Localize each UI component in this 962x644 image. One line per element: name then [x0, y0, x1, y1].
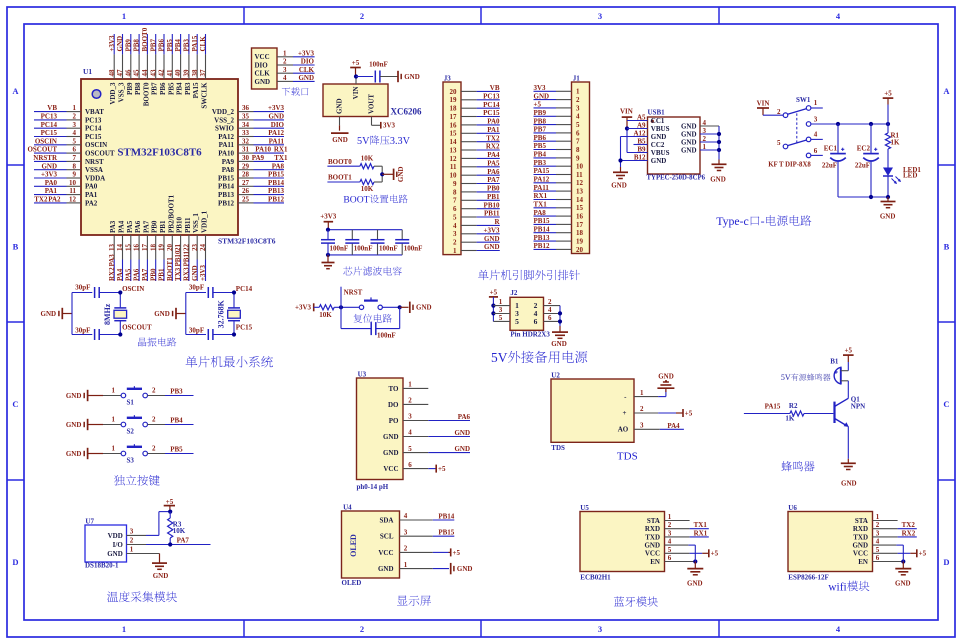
J1 pin 3 wire+net +5: [534, 101, 581, 113]
svg-text:8MHz: 8MHz: [103, 303, 112, 325]
svg-text:22uF: 22uF: [822, 162, 837, 170]
svg-text:RX1: RX1: [274, 146, 288, 154]
svg-text:TDS: TDS: [617, 451, 638, 463]
transistor Q1 NPN: [835, 396, 866, 427]
svg-text:VCC: VCC: [255, 53, 270, 61]
svg-text:RX3: RX3: [183, 267, 191, 281]
svg-text:46: 46: [124, 69, 132, 77]
resistor R2 1K: [785, 402, 804, 422]
svg-text:C: C: [943, 399, 949, 409]
svg-text:-: -: [761, 214, 765, 228]
svg-text:9: 9: [453, 180, 457, 188]
U4 pin 2 VCC wire: [378, 545, 460, 557]
svg-text:24: 24: [199, 244, 207, 252]
svg-text:EC2: EC2: [857, 145, 871, 153]
J3 pin 11 wire+net PA5: [450, 160, 500, 172]
svg-text:B5: B5: [637, 137, 646, 145]
label TYPEC-250D-8CP6: [647, 174, 706, 181]
svg-text:SWIO: SWIO: [215, 125, 235, 133]
svg-text:2: 2: [152, 445, 156, 453]
caption independent keys: [114, 475, 160, 486]
U1 left pin 6 OSCOUT wire+label: [27, 146, 114, 158]
svg-text:10: 10: [69, 179, 77, 187]
svg-text:100nF: 100nF: [354, 245, 373, 253]
J3 pin 8 wire+net PB0: [453, 185, 500, 197]
wire BOOT0 to node: [374, 166, 382, 174]
U1 bottom pin 17 PA7 wire+label: [141, 220, 150, 281]
svg-text:U6: U6: [788, 504, 797, 512]
switch SW1 KF T DIP-8X8: [777, 96, 818, 158]
svg-text:100nF: 100nF: [404, 245, 423, 253]
svg-text:GND: GND: [651, 133, 667, 141]
svg-text:PA4: PA4: [487, 151, 500, 159]
U6 pin 5 VCC wire: [853, 546, 927, 558]
temp sensor U7 body: [85, 517, 127, 569]
svg-text:LED: LED: [903, 172, 917, 180]
connector J1 20-pin body: [572, 75, 590, 254]
svg-text:1: 1: [130, 546, 134, 554]
svg-text:7: 7: [576, 138, 580, 146]
label Pin HDR2X3: [510, 331, 550, 339]
svg-text:PB13: PB13: [534, 234, 550, 242]
U1 right pin 36 VDD_2 wire+label: [212, 104, 285, 116]
caption MCU minimum system: [186, 356, 273, 368]
svg-text:1: 1: [404, 561, 408, 569]
caption Type-c power circuit: [716, 214, 811, 228]
U1 top pin 37 SWCLK wire+label: [199, 34, 208, 109]
pushbutton S2 to PB4: [66, 415, 194, 435]
crystal X2 32.768K with 30pF caps: [154, 284, 252, 340]
svg-text:PB6: PB6: [534, 134, 547, 142]
svg-text:3: 3: [283, 66, 287, 74]
svg-text:39: 39: [183, 69, 191, 77]
svg-text:18: 18: [576, 229, 584, 237]
svg-text:A5: A5: [637, 113, 646, 121]
svg-text:25: 25: [242, 196, 250, 204]
svg-text:GND: GND: [484, 235, 500, 243]
J2 row 3-4 wires: [493, 306, 560, 318]
power +3V3 at reset: [295, 303, 319, 311]
svg-text:PB0: PB0: [487, 185, 500, 193]
svg-text:16: 16: [450, 121, 458, 129]
svg-text:21: 21: [174, 244, 182, 252]
svg-text:1: 1: [112, 445, 116, 453]
svg-text:6: 6: [534, 317, 538, 326]
svg-text:PB13: PB13: [268, 187, 284, 195]
svg-text:TX2: TX2: [902, 521, 916, 529]
buzzer B1 5V active: [781, 358, 848, 384]
U6 pin 3 TXD wire: [853, 529, 917, 541]
svg-text:OLED: OLED: [349, 534, 358, 557]
svg-text:VB: VB: [490, 84, 500, 92]
USB1 left pin A12 GND: [621, 129, 667, 141]
svg-text:+5: +5: [711, 550, 719, 558]
svg-text:RXD: RXD: [853, 525, 868, 533]
U1 bottom pin 15 PA5 wire+label: [124, 220, 133, 281]
svg-text:15: 15: [450, 130, 458, 138]
svg-text:30: 30: [242, 154, 250, 162]
svg-text:PA15: PA15: [192, 82, 200, 98]
svg-text:OSCOUT: OSCOUT: [85, 150, 115, 158]
svg-text:5: 5: [499, 314, 503, 322]
svg-text:PB12: PB12: [218, 199, 234, 207]
svg-text:PA11: PA11: [269, 137, 285, 145]
svg-text:4: 4: [283, 74, 287, 82]
svg-text:1: 1: [112, 387, 116, 395]
caption pH title none: [0, 0, 1, 1]
U1 left pin 3 PC14 wire+label: [34, 121, 102, 133]
svg-text:10: 10: [576, 163, 584, 171]
svg-text:GND: GND: [457, 565, 473, 573]
caption crystal circuit: [138, 337, 176, 346]
svg-text:TXD: TXD: [853, 533, 868, 541]
svg-text:17: 17: [576, 221, 584, 229]
svg-text:ph0-14 pH: ph0-14 pH: [357, 483, 389, 491]
svg-text:2: 2: [668, 521, 672, 529]
svg-text:+5: +5: [884, 90, 892, 98]
svg-text:1: 1: [576, 88, 580, 96]
svg-text:PC15: PC15: [85, 133, 102, 141]
svg-text:10K: 10K: [173, 527, 186, 535]
svg-text:5: 5: [408, 445, 412, 453]
svg-text:GND: GND: [681, 122, 697, 130]
connector download port 4-pin: [252, 48, 315, 89]
svg-text:100nF: 100nF: [377, 332, 396, 340]
svg-text:6: 6: [576, 129, 580, 137]
svg-text:S3: S3: [127, 456, 135, 464]
svg-text:28: 28: [242, 171, 250, 179]
node BOOT junction: [380, 172, 393, 176]
svg-text:31: 31: [242, 146, 250, 154]
svg-text:5: 5: [668, 546, 672, 554]
svg-text:33: 33: [242, 129, 250, 137]
svg-text:32.768K: 32.768K: [217, 299, 226, 328]
svg-text:Type-c: Type-c: [716, 214, 749, 228]
svg-text:3: 3: [73, 121, 77, 129]
svg-text:B9: B9: [637, 145, 646, 153]
svg-text:22uF: 22uF: [855, 162, 870, 170]
U6 pin 1 STA wire: [855, 513, 898, 525]
power +5 at R1: [883, 90, 894, 134]
svg-text:1: 1: [122, 624, 126, 634]
svg-text:GND: GND: [880, 212, 896, 220]
label KF T DIP-8X8: [768, 161, 811, 168]
resistor R3 10K: [168, 512, 186, 545]
svg-text:PB11: PB11: [184, 217, 192, 233]
svg-text:2: 2: [283, 58, 287, 66]
J3 pin 17 wire+net PC15: [450, 109, 500, 121]
svg-text:RX1: RX1: [694, 529, 708, 537]
U1 left pin 2 PC13 wire+label: [34, 113, 102, 125]
U1 right pin 26 PB13 wire+label: [218, 187, 284, 199]
svg-text:BOOT1: BOOT1: [328, 174, 352, 182]
svg-text:PB8: PB8: [133, 39, 141, 52]
svg-text:+3V3: +3V3: [108, 35, 116, 52]
svg-text:S1: S1: [127, 398, 135, 406]
svg-text:J2: J2: [510, 289, 518, 297]
svg-text:GND: GND: [611, 182, 627, 190]
svg-text:8: 8: [576, 146, 580, 154]
svg-text:1: 1: [668, 513, 672, 521]
svg-text:BOOT1: BOOT1: [166, 257, 174, 281]
svg-text:2: 2: [576, 96, 580, 104]
J1 pin 13 wire+net PA11: [534, 184, 584, 196]
svg-text:OSCOUT: OSCOUT: [122, 324, 152, 332]
U4 pin 4 SDA wire: [379, 512, 454, 524]
svg-text:5: 5: [576, 121, 580, 129]
svg-text:I/O: I/O: [113, 541, 124, 549]
svg-text:1: 1: [640, 389, 644, 397]
svg-text:12: 12: [450, 155, 458, 163]
wire R2 to base: [804, 413, 833, 415]
svg-text:11: 11: [450, 163, 457, 171]
svg-text:30pF: 30pF: [75, 284, 90, 292]
svg-text:2: 2: [777, 108, 781, 116]
ground bars BOOT: [394, 167, 406, 183]
U5 pin 5 VCC wire: [645, 546, 719, 558]
svg-text:4: 4: [453, 222, 457, 230]
svg-text:PA6: PA6: [458, 413, 471, 421]
net label BOOT0: [327, 158, 360, 166]
svg-text:11: 11: [69, 187, 76, 195]
caption wifi模块: [828, 581, 869, 594]
svg-text:VCC: VCC: [378, 549, 393, 557]
svg-text:+5: +5: [490, 289, 498, 297]
svg-text:4: 4: [814, 131, 818, 139]
caption temperature module: [107, 591, 177, 602]
svg-text:5: 5: [876, 546, 880, 554]
svg-text:GND: GND: [255, 78, 271, 86]
svg-text:36: 36: [242, 104, 250, 112]
svg-text:PC15: PC15: [236, 324, 253, 332]
resistor R1 1K: [885, 132, 900, 149]
caption display: [397, 595, 431, 605]
svg-text:PA1: PA1: [487, 126, 500, 134]
svg-text:PB13: PB13: [218, 191, 234, 199]
svg-text:GND: GND: [66, 450, 82, 458]
U3 pin 2 DO wire: [388, 397, 428, 409]
svg-text:PC14: PC14: [41, 121, 58, 129]
J3 pin 12 wire+net PA4: [450, 151, 500, 163]
U1 left pin 8 VSSA wire+label: [34, 162, 103, 174]
svg-text:STM32F103C8T6: STM32F103C8T6: [117, 147, 202, 159]
wire to reset node: [334, 305, 359, 309]
svg-text:CLK: CLK: [299, 66, 315, 74]
svg-text:4: 4: [876, 538, 880, 546]
wire VOUT to 3V3: [372, 117, 396, 130]
U7 pin 3 VDD wire: [108, 510, 173, 540]
svg-text:SW1: SW1: [796, 96, 811, 104]
svg-text:GND: GND: [710, 176, 726, 184]
svg-text:STM32F103C8T6: STM32F103C8T6: [218, 237, 276, 246]
connector J2 body: [510, 289, 544, 330]
U1 left pin 9 VDDA wire+label: [34, 171, 105, 183]
svg-text:20: 20: [450, 88, 458, 96]
svg-text:PB12: PB12: [268, 196, 284, 204]
svg-text:4: 4: [404, 512, 408, 520]
svg-text:1K: 1K: [891, 139, 901, 147]
svg-text:CLK: CLK: [255, 70, 271, 78]
U1 bottom pin 24 VDD_1 wire+label: [199, 210, 208, 281]
svg-text:VDDA: VDDA: [85, 174, 105, 182]
wire button to gnd: [382, 305, 408, 309]
J1 pin 16 wire+net PA8: [534, 209, 584, 221]
svg-text:NPN: NPN: [851, 403, 865, 411]
svg-text:2: 2: [130, 537, 134, 545]
U5 pin 6 EN wire: [650, 553, 697, 568]
svg-text:GND: GND: [41, 162, 57, 170]
U1 top pin 40 PB4 wire+label: [174, 34, 183, 95]
svg-text:10K: 10K: [361, 154, 374, 162]
svg-text:PA2: PA2: [85, 199, 98, 207]
svg-text:PA8: PA8: [222, 166, 235, 174]
caption chip filter caps: [343, 266, 402, 275]
svg-text:SWCLK: SWCLK: [201, 82, 209, 109]
connector J3 20-pin body: [443, 75, 461, 255]
svg-text:18: 18: [450, 105, 458, 113]
svg-text:PA6: PA6: [134, 220, 142, 233]
svg-text:PB0: PB0: [149, 268, 157, 281]
ground at filter caps: [322, 255, 335, 269]
svg-text:4: 4: [668, 538, 672, 546]
svg-text:GND: GND: [895, 579, 911, 587]
U1 bottom pin 14 PA4 wire+label: [116, 220, 125, 281]
svg-text:BOOT0: BOOT0: [142, 82, 150, 106]
svg-text:GND: GND: [268, 113, 284, 121]
svg-text:Pin HDR2X3: Pin HDR2X3: [510, 331, 550, 339]
J1 pin 20 wire+net PB12: [534, 242, 584, 254]
J3 pin 6 wire+net PB10: [453, 201, 500, 213]
svg-text:2: 2: [640, 405, 644, 413]
svg-text:GND: GND: [416, 304, 432, 312]
svg-text:VB: VB: [47, 104, 57, 112]
svg-text:PC14: PC14: [85, 125, 102, 133]
svg-text:+5: +5: [845, 347, 853, 355]
svg-text:DIO: DIO: [301, 58, 315, 66]
svg-text:PB4: PB4: [170, 416, 183, 424]
svg-text:3: 3: [130, 528, 134, 536]
svg-text:GND: GND: [41, 310, 57, 318]
svg-text:PC14: PC14: [236, 285, 253, 293]
svg-text:14: 14: [116, 244, 124, 252]
svg-text:37: 37: [199, 69, 207, 77]
power +5 at regulator: [350, 59, 361, 77]
U1 bottom pin 18 PB0 wire+label: [149, 220, 158, 281]
svg-text:PB1: PB1: [487, 193, 500, 201]
svg-text:PC15: PC15: [483, 109, 500, 117]
resistor 10K reset: [319, 305, 334, 319]
U1 right pin 30 PA9 wire+label: [222, 154, 288, 166]
svg-text:VCC: VCC: [853, 550, 868, 558]
svg-text:PB10: PB10: [176, 217, 184, 233]
svg-text:A: A: [12, 86, 19, 96]
svg-text:10K: 10K: [319, 311, 332, 319]
J3 pin 1 wire+net GND: [453, 243, 500, 255]
svg-text:1: 1: [876, 513, 880, 521]
svg-text:VSSA: VSSA: [85, 166, 103, 174]
power +3V3 filter rail: [320, 212, 337, 229]
crystal X1 8MHz with 30pF caps: [41, 284, 152, 340]
svg-text:GND: GND: [681, 146, 697, 154]
capacitor 100nF at regulator input: [356, 60, 398, 82]
wire right GND bus: [717, 126, 721, 164]
J1 pin 2 wire+net GND: [534, 92, 581, 104]
svg-text:PA3: PA3: [109, 220, 117, 233]
svg-text:+3V3: +3V3: [268, 104, 285, 112]
svg-text:TO: TO: [389, 385, 400, 393]
svg-text:3: 3: [408, 413, 412, 421]
J3 pin 3 wire+net +3V3: [453, 227, 500, 239]
svg-text:PA15: PA15: [765, 403, 781, 411]
U1 left pin 4 PC15 wire+label: [34, 129, 102, 141]
svg-text:PB14: PB14: [534, 225, 550, 233]
svg-text:TXD: TXD: [645, 533, 660, 541]
svg-text:PA0: PA0: [85, 183, 98, 191]
svg-text:VDD_2: VDD_2: [212, 108, 235, 116]
caption xiazaikou: [282, 87, 309, 95]
USB1 right pin 1 GND: [681, 143, 719, 155]
svg-text:PB10: PB10: [174, 250, 182, 266]
svg-text:VSS_3: VSS_3: [118, 82, 126, 102]
svg-text:GND: GND: [852, 542, 868, 550]
J3 pin 14 wire+net TX2: [450, 134, 500, 146]
svg-text:PB4: PB4: [534, 151, 547, 159]
svg-text:GND: GND: [298, 74, 314, 82]
svg-text:PB15: PB15: [218, 174, 234, 182]
svg-text:GND: GND: [336, 98, 344, 114]
svg-text:PA1: PA1: [85, 191, 98, 199]
svg-text:14: 14: [450, 138, 458, 146]
svg-text:22: 22: [183, 244, 191, 252]
svg-text:+5: +5: [438, 465, 446, 473]
svg-text:TX1: TX1: [534, 201, 548, 209]
svg-text:1: 1: [408, 381, 412, 389]
svg-text:PB7: PB7: [149, 39, 157, 52]
svg-text:VIN: VIN: [757, 99, 770, 107]
svg-text:BOOT: BOOT: [343, 195, 369, 206]
svg-text:PA0: PA0: [487, 118, 500, 126]
U6 pin 2 RXD wire: [853, 521, 917, 533]
svg-text:PA6: PA6: [133, 268, 141, 281]
ground earth buzzer: [841, 459, 857, 488]
J3 pin 18 wire+net PC14: [450, 101, 500, 113]
J3 pin 20 wire+net VB: [450, 84, 500, 96]
svg-text:RX2: RX2: [902, 529, 916, 537]
svg-text:+5: +5: [453, 549, 461, 557]
svg-text:A12: A12: [633, 129, 646, 137]
wire SW1 pin4 stub: [811, 138, 823, 140]
svg-text:STA: STA: [855, 517, 868, 525]
svg-text:GND: GND: [681, 130, 697, 138]
J1 pin 19 wire+net PB13: [534, 234, 584, 246]
svg-text:GND: GND: [404, 73, 420, 81]
svg-text:13: 13: [576, 188, 584, 196]
U4 pin 3 SCL wire: [380, 528, 455, 540]
pushbutton S1 to PB3: [66, 386, 194, 406]
svg-text:PA4: PA4: [667, 422, 680, 430]
svg-text:15: 15: [576, 204, 584, 212]
svg-text:3: 3: [703, 127, 707, 135]
svg-text:30pF: 30pF: [75, 327, 90, 335]
U3 pin 5 GND wire: [383, 445, 470, 457]
svg-text:DIO: DIO: [255, 61, 269, 69]
svg-text:TX2: TX2: [34, 196, 48, 204]
svg-text:D: D: [12, 557, 18, 567]
svg-text:OSCOUT: OSCOUT: [27, 146, 57, 154]
svg-text:2: 2: [876, 521, 880, 529]
svg-text:S2: S2: [127, 427, 135, 435]
svg-text:GND: GND: [153, 572, 169, 580]
